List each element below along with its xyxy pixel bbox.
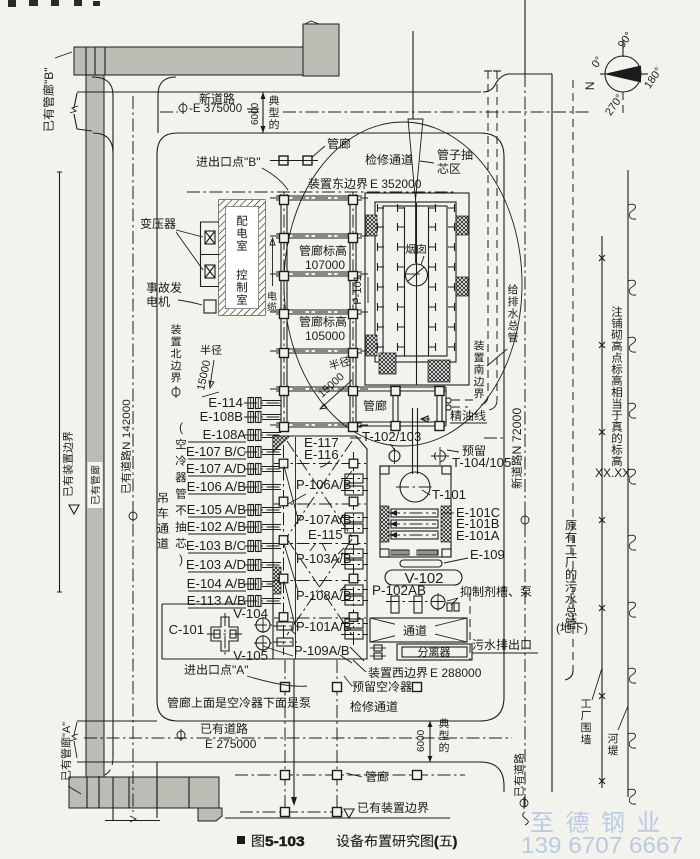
left road lower continuation	[105, 762, 160, 822]
svg-text:P-101A/B: P-101A/B	[296, 619, 352, 634]
svg-text:V-104: V-104	[233, 606, 268, 621]
svg-text:E-107 A/D: E-107 A/D	[186, 461, 246, 476]
exchanger E-114 row	[244, 398, 283, 409]
tower T-101 circle	[396, 472, 434, 502]
emergency generator box	[204, 300, 216, 313]
existing road left centerline	[132, 96, 134, 812]
new road right - east edge	[551, 74, 553, 792]
crane radius 15000 envelope ellipse	[284, 122, 522, 446]
label rack mid right	[363, 400, 374, 411]
exchanger E-109 pill	[400, 560, 442, 567]
crane bay column symbols	[279, 459, 358, 621]
label rack above air cooler below pump	[167, 697, 178, 708]
bottom rack column symbols	[281, 683, 422, 817]
svg-text:6000: 6000	[416, 729, 427, 752]
exchangers E-101C/B/A horizontal	[387, 509, 438, 539]
svg-text:N 72000: N 72000	[512, 408, 524, 455]
scan artifact marks top edge	[8, 0, 100, 7]
centerline bottom right	[520, 797, 528, 825]
factory fence line with x marks	[599, 236, 605, 788]
svg-text:V-105: V-105	[233, 648, 268, 663]
exchanger E-113A/B row	[188, 596, 283, 609]
label shigu fadianji emergency generator	[147, 282, 158, 293]
new road west terminator break	[70, 93, 92, 131]
transformer 2	[200, 222, 219, 287]
comb strips under exchangers	[391, 550, 438, 555]
new road right centerline	[524, 0, 526, 808]
label typical bottom vertical	[439, 718, 449, 728]
label river dike rotated	[608, 733, 618, 743]
drum V-102 pill	[385, 570, 462, 585]
exchanger end crosshatch left	[380, 506, 389, 542]
label bianyaqi transformer with leaders	[141, 218, 152, 229]
label reserved	[462, 445, 473, 456]
unit north boundary vertical label	[171, 324, 181, 334]
label rack elevation 107000	[299, 245, 310, 256]
svg-text:"B": "B"	[42, 68, 56, 85]
monorail boom to crane circle	[413, 408, 431, 474]
label maintenance passage top	[365, 154, 376, 165]
label rack bottom	[365, 771, 376, 782]
svg-text:E-105 A/B: E-105 A/B	[187, 502, 246, 517]
furnace middle rectangle	[375, 202, 456, 362]
note pavement elevation vertical	[612, 306, 623, 316]
label existing rack B rotated	[42, 68, 56, 131]
existing pipe rack A - bottom gray bar	[69, 777, 222, 821]
exchanger E-107B/C row	[188, 447, 283, 460]
svg-text:E-108B: E-108B	[200, 409, 243, 424]
label rack elevation 105000	[299, 316, 310, 327]
svg-text:E-116: E-116	[304, 447, 339, 462]
new road right - west edge	[480, 157, 504, 721]
svg-text:P-102AB: P-102AB	[372, 583, 426, 598]
svg-text:): )	[584, 621, 588, 635]
svg-text:E-104 A/B: E-104 A/B	[187, 576, 246, 591]
svg-text:XX.XX: XX.XX	[595, 466, 630, 480]
furnace outer rectangle	[365, 193, 469, 385]
existing road left - east edge	[157, 154, 178, 721]
figure caption	[237, 836, 245, 844]
svg-text:"A": "A"	[61, 722, 73, 737]
label existing rack A rotated	[61, 722, 73, 780]
label typical top vertical	[269, 95, 279, 105]
exchanger E-104A/B row	[188, 579, 283, 592]
svg-text:P-106A/B: P-106A/B	[296, 477, 352, 492]
svg-text:E 288000: E 288000	[430, 666, 482, 680]
drum V-105	[254, 635, 272, 651]
svg-text:6000: 6000	[250, 102, 261, 125]
label radius 15000 left	[201, 345, 211, 355]
svg-text:E-101A: E-101A	[456, 528, 500, 543]
svg-text:N 142000: N 142000	[121, 399, 133, 450]
exchanger E-108B row	[244, 412, 283, 423]
svg-text:E-106 A/B: E-106 A/B	[187, 479, 246, 494]
existing road bottom - north edge	[70, 721, 480, 758]
label unit west boundary E288000	[353, 660, 366, 672]
crane bay diagonal travel lines	[287, 441, 352, 635]
label existing unit boundary vertical	[63, 431, 73, 496]
pipe rack extension to east	[356, 387, 446, 426]
horizontal centerline segments near cranes	[350, 437, 506, 439]
svg-text:N: N	[583, 82, 597, 91]
new road top - north edge	[77, 74, 552, 92]
label tube pulling area	[437, 149, 448, 160]
svg-text:"A": "A"	[232, 663, 249, 677]
separator rect	[397, 644, 472, 660]
label kongzhishi control room	[237, 269, 248, 279]
compressor C-101	[207, 613, 242, 655]
svg-text:E 275000: E 275000	[205, 737, 257, 751]
reserved crane circle T-104/105 dashed	[431, 447, 449, 465]
exchanger E-102A/B row	[188, 522, 283, 535]
svg-text:P-107A/B: P-107A/B	[296, 512, 352, 527]
crane bay hatch top left	[273, 436, 290, 452]
exchanger E-103B/C row	[188, 541, 283, 554]
svg-text:P-103A/B: P-103A/B	[296, 551, 352, 566]
svg-text:(: (	[179, 422, 183, 434]
svg-text:(: (	[434, 833, 439, 849]
existing unit boundary bottom line	[225, 809, 450, 818]
rack column symbols	[280, 196, 445, 432]
crane circle T-102/103	[389, 448, 400, 464]
transformer 1	[205, 231, 215, 244]
cable label and arrow	[268, 291, 276, 300]
furnace inner rectangle	[383, 206, 447, 356]
label unit east boundary E352000	[308, 178, 319, 189]
label entry point B	[196, 156, 207, 167]
pumps P-101A/B bottom left	[273, 622, 297, 646]
gray block at top right of rack B	[303, 21, 339, 76]
compass label N	[583, 82, 597, 91]
old factory sewer main dashed line	[565, 80, 573, 680]
svg-text:C-101: C-101	[169, 622, 204, 637]
refined oil line circles	[446, 398, 477, 410]
bottom rack dashed column lines	[235, 659, 465, 816]
air cooler exchanger rows	[0, 0, 1, 1]
tube pulling area spike	[408, 31, 423, 263]
label existing road E275000	[201, 724, 211, 734]
svg-text:E-115: E-115	[308, 527, 343, 542]
exchanger E-108A row	[188, 430, 283, 443]
svg-text:E-108A: E-108A	[203, 427, 247, 442]
pumps on east side of crane bay	[341, 474, 368, 639]
label new road top	[199, 93, 210, 104]
exchanger E-103A/D row	[188, 560, 283, 573]
watermark zhide steel	[531, 812, 553, 832]
crane bay rectangle	[273, 436, 367, 659]
centerline symbol on north boundary	[172, 386, 180, 398]
label unit south boundary vertical	[474, 340, 484, 350]
new road top - south edge with corner arcs	[157, 133, 504, 157]
crane bay grid rows dash-dot	[274, 437, 366, 659]
exchanger E-106A/B row	[188, 482, 283, 495]
label P-101 vertical	[352, 275, 364, 304]
label yancong chimney	[405, 244, 415, 254]
label maintenance passage bottom	[350, 701, 361, 712]
new road top centerline	[160, 111, 589, 113]
crane bay hatch left mid	[273, 567, 281, 594]
svg-text:5-103: 5-103	[265, 833, 305, 849]
pipe rack ladder structure	[270, 192, 368, 432]
svg-text:E-114: E-114	[208, 395, 243, 410]
svg-text:T-101: T-101	[432, 487, 466, 502]
existing road left - east edge top arc	[158, 77, 176, 133]
label refined oil line	[450, 410, 461, 421]
furnace tube symbols	[378, 204, 455, 351]
north arrow compass	[600, 40, 648, 113]
svg-text:E-103 A/D: E-103 A/D	[186, 557, 246, 572]
label reserved air cooler	[352, 681, 363, 692]
svg-text:-E 375000: -E 375000	[189, 103, 242, 115]
centerline symbol bottom road	[177, 729, 185, 741]
compass label 0deg	[590, 55, 606, 70]
water main dashed line	[489, 71, 501, 410]
svg-text:E-107 B/C: E-107 B/C	[186, 444, 246, 459]
svg-text:107000: 107000	[305, 258, 345, 272]
svg-text:E 352000: E 352000	[370, 177, 422, 191]
river dike line with wave marks	[628, 170, 636, 804]
compressor house enclosure	[162, 604, 273, 659]
label factory fence rotated	[581, 699, 591, 707]
label pipe rack top	[327, 138, 338, 149]
svg-text:P-101: P-101	[352, 275, 364, 304]
label crane passage vertical	[158, 493, 167, 503]
existing road bottom - south edge	[77, 762, 504, 792]
passage bowtie area	[370, 618, 467, 642]
pumps P-102AB	[386, 596, 445, 613]
svg-text:E-102 A/B: E-102 A/B	[187, 519, 246, 534]
label radius 15000 right	[328, 355, 351, 370]
furnace coil header lines	[405, 203, 429, 385]
svg-text:"B": "B"	[244, 155, 261, 169]
substation and control room building	[219, 200, 265, 315]
label entry point A	[184, 664, 195, 675]
svg-text:T-102/103: T-102/103	[362, 429, 421, 444]
svg-text:E-109: E-109	[470, 547, 505, 562]
label water main vertical	[508, 284, 518, 294]
existing road bottom centerline	[84, 737, 512, 739]
compass label 270deg	[603, 92, 626, 118]
svg-text:E-103 B/C: E-103 B/C	[186, 538, 246, 553]
existing pipe rack B - top horizontal gray bar	[74, 47, 305, 75]
small pumps left of separator	[370, 645, 386, 659]
crane bay internal leader diagonals	[284, 466, 298, 625]
svg-text:139 6707 6667: 139 6707 6667	[521, 832, 683, 858]
label existing road N142000 vertical	[121, 399, 133, 493]
svg-text:T-104/105: T-104/105	[452, 455, 511, 470]
label centerline E375000	[179, 102, 187, 114]
svg-text:(: (	[556, 621, 560, 635]
label existing pipe rack on gray bar	[91, 466, 100, 505]
exchanger end crosshatch right	[441, 506, 451, 542]
label existing road N142000 bottom ck	[129, 510, 137, 522]
dimension 6000 bottom	[428, 721, 433, 762]
label existing unit boundary bottom	[358, 803, 368, 813]
furnace crosshatch patches	[366, 215, 468, 382]
column symbols on passage	[270, 156, 318, 165]
label peidianshi substation room	[237, 216, 247, 226]
label existing road bottom right vertical	[514, 753, 524, 796]
exchanger E-107A/D row	[188, 464, 283, 477]
existing pipe rack - left vertical gray bar	[86, 75, 104, 777]
tower T-101 structure rect	[380, 466, 451, 557]
compass label 180deg	[642, 65, 665, 91]
centerline right road	[521, 514, 529, 526]
svg-text:105000: 105000	[305, 329, 345, 343]
label old factory sewer vertical	[565, 520, 576, 531]
boundary marker line left	[57, 172, 62, 592]
existing road left - west edge	[92, 77, 113, 777]
label inhibitor tank pump	[460, 586, 471, 597]
label sewage outlet	[472, 639, 483, 650]
drum V-104	[254, 617, 272, 633]
unit south boundary dashed line	[481, 71, 492, 405]
svg-text:): )	[179, 554, 183, 566]
svg-text:P-108A/B: P-108A/B	[296, 588, 352, 603]
inhibitor tank and pump	[431, 593, 470, 660]
dimension 6000 top	[261, 92, 266, 133]
exchanger E-105A/B row	[188, 505, 283, 518]
chimney circle	[406, 264, 428, 286]
label new road N72000 vertical	[511, 408, 524, 489]
compass label 90deg	[616, 30, 635, 50]
svg-text:): )	[453, 833, 458, 849]
